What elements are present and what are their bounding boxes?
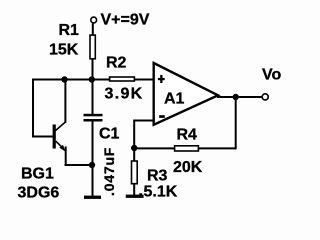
svg-text:V+=9V: V+=9V <box>101 12 150 29</box>
svg-text:BG1: BG1 <box>21 166 54 183</box>
svg-text:20K: 20K <box>173 159 203 176</box>
svg-text:3DG6: 3DG6 <box>18 185 60 202</box>
svg-text:15K: 15K <box>49 42 79 59</box>
svg-text:R4: R4 <box>177 127 198 144</box>
svg-text:.047uF: .047uF <box>101 147 117 196</box>
svg-text:A1: A1 <box>164 91 185 108</box>
svg-text:R3: R3 <box>147 168 168 185</box>
svg-text:R1: R1 <box>59 22 80 39</box>
svg-text:3.9K: 3.9K <box>105 86 144 103</box>
svg-text:Vo: Vo <box>262 67 281 84</box>
svg-text:5.1K: 5.1K <box>144 184 178 201</box>
svg-text:C1: C1 <box>99 126 120 143</box>
svg-text:R2: R2 <box>106 55 127 72</box>
